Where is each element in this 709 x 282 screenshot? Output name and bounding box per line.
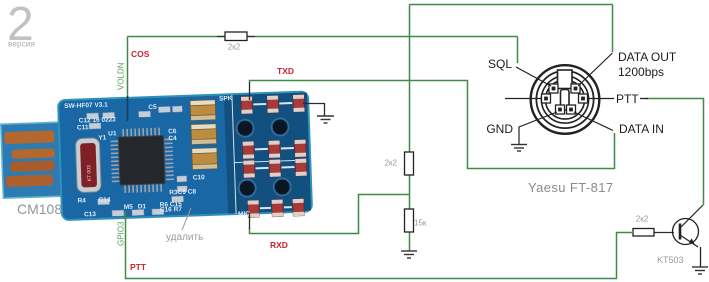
DIN center key (561, 90, 570, 111)
svg-text:C12 16 0222: C12 16 0222 (79, 116, 117, 124)
DIN pin 6 bottom-right (567, 105, 576, 114)
DIN pin 2 top-right (571, 84, 580, 93)
DIN pin 3 mid-left (542, 94, 551, 103)
crystal Y1 (75, 138, 101, 193)
stub SPK pin (249, 82, 251, 100)
DIN outer ring (531, 65, 600, 134)
resistor R2 2k2 vertical (405, 152, 414, 175)
spoke SQL (516, 67, 551, 86)
svg-text:1200bps: 1200bps (618, 65, 664, 79)
svg-text:Y1: Y1 (98, 135, 107, 142)
annotation pointer line (182, 208, 191, 230)
DIN pin 4 mid-right (579, 94, 588, 103)
resistor R4 2k2 (633, 229, 654, 237)
svg-text:C10: C10 (193, 174, 206, 181)
svg-text:15к: 15к (414, 219, 427, 228)
svg-text:DATA IN: DATA IN (619, 122, 664, 136)
transistor Q1 KT503 (673, 205, 704, 267)
wire PTT DIN to transistor collector (646, 99, 704, 206)
PCB darker right section (224, 93, 311, 214)
wire COS (VOLDN to SQL) (128, 37, 518, 98)
resistor R4 2k2 leads (654, 232, 674, 234)
svg-text:Yaesu FT-817: Yaesu FT-817 (528, 180, 614, 195)
svg-text:KT 003: KT 003 (86, 165, 93, 181)
wire PCB ground (303, 104, 325, 116)
svg-text:R3C9 C8: R3C9 C8 (169, 188, 196, 196)
USB connector tongue (1, 122, 72, 198)
svg-text:GPIO3: GPIO3 (117, 221, 126, 246)
svg-text:PTT: PTT (130, 262, 147, 272)
svg-text:R4: R4 (77, 197, 86, 204)
svg-text:версия: версия (8, 40, 35, 49)
svg-text:C13: C13 (84, 211, 97, 218)
spoke PTT right segment (640, 98, 648, 100)
svg-text:удалить: удалить (166, 232, 203, 243)
ground transistor (692, 267, 708, 274)
resistor R1 2k2 leads (217, 36, 255, 38)
ground GND pin (511, 145, 527, 152)
DIN pin 5 bottom-left (556, 105, 565, 114)
spoke DATA IN (574, 112, 613, 131)
svg-text:D1: D1 (138, 203, 147, 210)
svg-text:C16 R7: C16 R7 (160, 206, 183, 214)
red SMD parts grid (241, 95, 308, 218)
emitter arrow (689, 238, 695, 243)
svg-text:RXD: RXD (270, 240, 288, 250)
wire branch to DATA OUT (410, 5, 613, 53)
wire TXD to DATA IN (250, 81, 615, 169)
svg-text:KT503: KT503 (657, 255, 684, 265)
svg-text:COS: COS (131, 49, 150, 59)
chip U1 CM108 (109, 127, 174, 193)
DIN ring 4 (545, 80, 584, 119)
svg-text:U1: U1 (108, 130, 117, 137)
svg-text:PTT: PTT (616, 92, 639, 106)
svg-text:C11: C11 (77, 124, 89, 131)
spoke left unlabeled (505, 98, 542, 100)
wire divider branch down (409, 37, 411, 252)
silkscreen row links (253, 103, 296, 208)
DIN ring 3 (541, 76, 588, 123)
small SMD passives around chip (86, 106, 188, 217)
wire stub into board COS pad (127, 96, 129, 121)
ground divider (401, 251, 417, 258)
svg-text:2к2: 2к2 (228, 43, 241, 52)
through holes (236, 118, 291, 197)
wire PTT bottom (126, 211, 633, 279)
svg-text:CM108: CM108 (17, 201, 62, 217)
ground PCB (317, 116, 334, 123)
silkscreen text (64, 95, 250, 224)
stub MIC pin (249, 213, 251, 229)
PCB photo group (0, 91, 312, 226)
spoke GND (519, 112, 557, 144)
resistor R3 15k vertical (405, 209, 414, 232)
svg-text:C4: C4 (168, 135, 177, 142)
resistor R1 2k2 (225, 32, 247, 41)
svg-text:DATA OUT: DATA OUT (618, 50, 677, 64)
svg-text:2к2: 2к2 (385, 159, 398, 168)
svg-text:C14: C14 (98, 196, 111, 203)
spoke DATA OUT (578, 53, 613, 86)
spoke PTT (587, 98, 614, 100)
svg-text:GND: GND (486, 122, 513, 136)
wire RXD (250, 195, 410, 234)
PCB board (58, 91, 312, 220)
silkscreen section boxes (232, 93, 306, 214)
svg-text:M5: M5 (124, 204, 134, 211)
mini-DIN connector Yaesu FT-817 (531, 65, 600, 134)
DIN ring 2 (536, 71, 593, 128)
tantalum capacitors column (190, 100, 217, 170)
svg-text:SPK: SPK (219, 95, 233, 102)
DIN key notch (558, 70, 573, 89)
svg-text:2к2: 2к2 (636, 215, 649, 224)
svg-text:SQL: SQL (488, 57, 512, 71)
DIN pin 1 top-left (549, 84, 558, 93)
svg-text:C5: C5 (148, 104, 157, 111)
svg-text:VOLDN: VOLDN (117, 62, 126, 90)
svg-text:TXD: TXD (277, 66, 294, 76)
svg-text:MIC: MIC (238, 211, 250, 218)
